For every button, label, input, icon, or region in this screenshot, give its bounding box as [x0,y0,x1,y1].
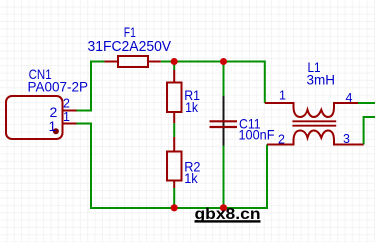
CN1 pin 1 lead [63,123,77,125]
svg-text:3mH: 3mH [307,72,336,88]
svg-text:1: 1 [49,118,57,134]
L1 core line 2 [292,125,336,127]
svg-text:31FC2A250V: 31FC2A250V [88,38,172,55]
resistor R2 bottom lead [173,181,175,189]
capacitor C11 top plate [210,120,238,122]
junction dot C11 bottom node [220,204,227,211]
inductor L1 top winding with pin1 and pin4 leads [265,103,358,117]
svg-text:2: 2 [278,133,285,147]
resistor R1 body [167,83,182,113]
fuse F1 body [118,56,148,67]
inductor L1 bottom winding with pin2 and pin3 leads [267,131,364,145]
fuse F1 right lead [148,61,161,63]
resistor R2 body [167,152,182,181]
svg-text:2: 2 [63,97,70,111]
watermark underline [195,220,261,222]
junction dot R2 bottom node [171,204,178,211]
connector CN1 body [6,96,63,139]
wire R1-R2 middle [173,123,175,137]
resistor R1 bottom lead [173,112,175,123]
wire C11 bottom [223,146,225,209]
CN1 pin1 dot marker [53,128,59,134]
wire stub R1 top [173,62,175,71]
CN1 pin 2 lead [63,110,77,112]
capacitor C11 bottom plate [210,126,238,128]
capacitor C11 top lead (black) [223,96,225,146]
svg-text:1k: 1k [185,99,199,115]
svg-text:1k: 1k [184,170,198,186]
resistor R1 top lead [173,70,175,83]
wire L1 pin3 out [364,117,375,145]
resistor R2 top lead [173,137,175,152]
junction dot C11 top node [220,58,227,65]
svg-text:3: 3 [343,132,350,146]
wire R2 bottom [173,188,175,208]
capacitor C11 bottom lead (black) [223,128,225,146]
svg-text:PA007-2P: PA007-2P [28,79,89,95]
svg-text:1: 1 [279,88,286,102]
L1 core line 1 [292,120,336,122]
svg-text:4: 4 [346,91,353,105]
svg-text:100nF: 100nF [239,127,275,143]
wire net1: CN1 pin2 to F1 left [77,62,105,111]
fuse F1 left lead [105,61,119,63]
wire L1 pin4 out [358,102,375,104]
wire C11 top [223,62,225,97]
wire net3: F1 right to L1 pin1 [161,62,265,104]
junction dot F1/R1 node [171,58,178,65]
svg-text:1: 1 [63,110,70,124]
wire net2: CN1 pin1 bottom rail to L1 pin2 [77,124,268,209]
